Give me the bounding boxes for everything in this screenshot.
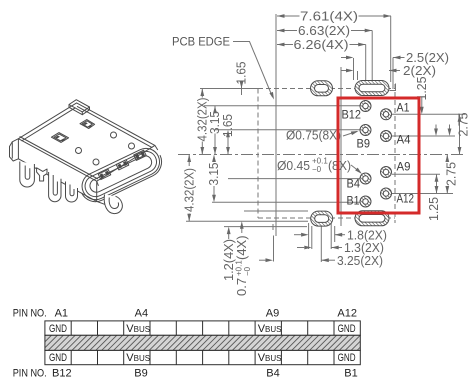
svg-text:1.25: 1.25: [426, 197, 441, 221]
svg-text:B9: B9: [134, 367, 147, 379]
svg-text:B1: B1: [344, 367, 357, 379]
svg-text:3.15: 3.15: [206, 163, 221, 186]
svg-text:−0: −0: [312, 165, 322, 174]
svg-text:B4: B4: [266, 367, 279, 379]
svg-text:A9: A9: [397, 162, 411, 174]
svg-text:B12: B12: [342, 110, 362, 122]
svg-text:2.75: 2.75: [456, 113, 471, 137]
svg-text:VBUS: VBUS: [126, 323, 150, 335]
svg-text:A4: A4: [397, 135, 412, 147]
svg-text:Ø0.75(8X): Ø0.75(8X): [286, 128, 341, 143]
svg-text:A12: A12: [397, 194, 415, 206]
svg-text:A9: A9: [266, 308, 279, 320]
svg-text:2(2X): 2(2X): [403, 63, 436, 78]
svg-text:GND: GND: [338, 352, 356, 364]
svg-text:B4: B4: [347, 179, 361, 191]
svg-text:2.75: 2.75: [443, 162, 458, 186]
svg-text:GND: GND: [49, 352, 67, 364]
svg-text:A12: A12: [337, 308, 357, 320]
svg-text:(4X): (4X): [234, 235, 249, 260]
svg-text:VBUS: VBUS: [258, 323, 282, 335]
svg-text:1.65: 1.65: [220, 114, 235, 137]
svg-text:0.7: 0.7: [234, 278, 249, 296]
svg-text:−0: −0: [243, 266, 252, 276]
svg-text:GND: GND: [49, 323, 67, 335]
svg-text:VBUS: VBUS: [126, 352, 150, 364]
svg-text:3.25(2X): 3.25(2X): [337, 253, 383, 268]
svg-text:B1: B1: [347, 196, 360, 208]
svg-text:GND: GND: [338, 323, 356, 335]
svg-text:4.32(2X): 4.32(2X): [181, 168, 196, 212]
svg-text:Ø0.45: Ø0.45: [277, 158, 310, 173]
svg-text:PCB EDGE: PCB EDGE: [172, 36, 230, 48]
svg-text:6.63(2X): 6.63(2X): [298, 23, 350, 38]
svg-text:A1: A1: [55, 308, 68, 320]
svg-text:PIN NO.: PIN NO.: [13, 367, 47, 379]
svg-text:7.61(4X): 7.61(4X): [300, 9, 358, 24]
svg-text:B9: B9: [357, 139, 371, 151]
svg-text:VBUS: VBUS: [258, 352, 282, 364]
svg-text:A4: A4: [135, 308, 148, 320]
svg-text:6.26(4X): 6.26(4X): [294, 37, 349, 52]
svg-text:B12: B12: [52, 367, 72, 379]
svg-text:1.65: 1.65: [234, 62, 249, 85]
svg-text:PIN NO.: PIN NO.: [13, 308, 47, 320]
svg-text:A1: A1: [397, 103, 410, 115]
